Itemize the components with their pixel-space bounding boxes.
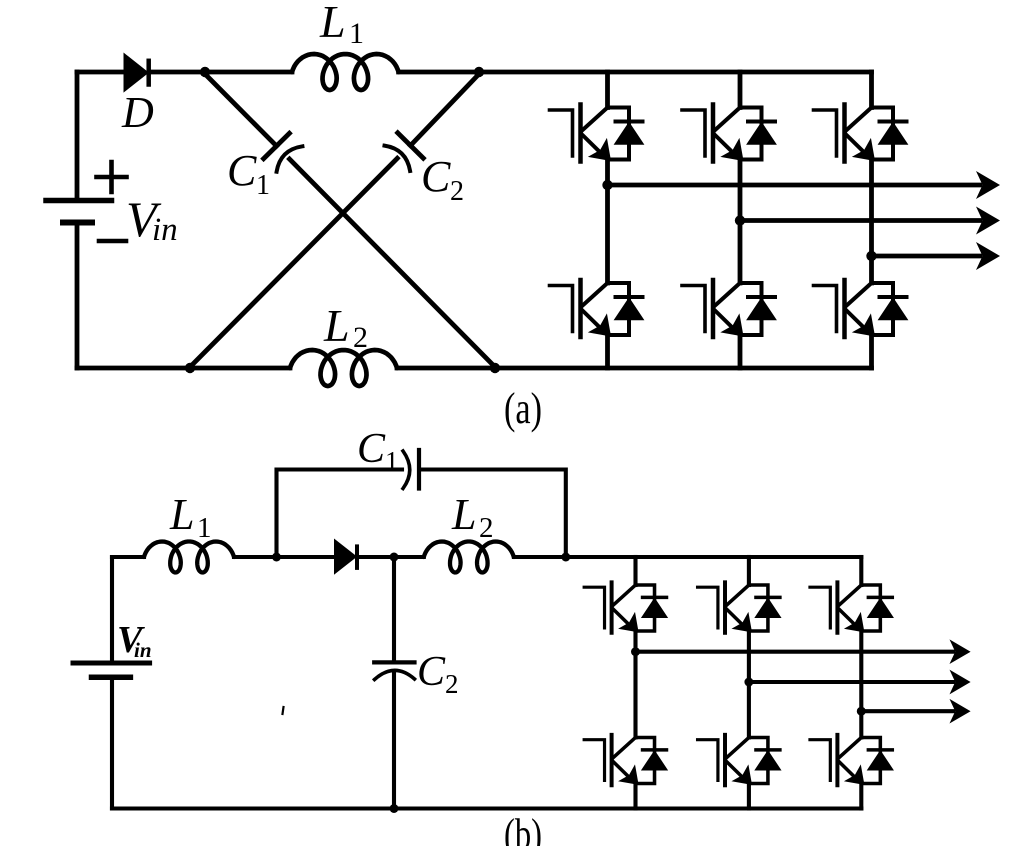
- svg-text:1: 1: [385, 446, 399, 476]
- svg-text:2: 2: [479, 512, 494, 544]
- capacitor C1 straight plate (a): [264, 133, 290, 158]
- node C1-bus junction (b): [561, 553, 570, 562]
- plus sign (a): [97, 162, 127, 192]
- wire: leg 1 middle (b): [633, 631, 637, 738]
- wire: X diagonal 1 upper segment (a): [205, 74, 277, 146]
- wire: phase C output line (a): [872, 254, 981, 259]
- svg-text:C: C: [357, 426, 386, 472]
- arrow phase C (a): [976, 242, 1000, 270]
- IGBT S5 upper leg3 (a): [814, 105, 908, 162]
- wire: diode to node (a): [151, 70, 206, 75]
- wire: L1 to diode (b): [234, 555, 335, 559]
- wire: bottom bus (a): [397, 366, 872, 371]
- wire: X diagonal 2 upper segment (a): [411, 74, 480, 146]
- diode D (a): [125, 55, 148, 91]
- arrow phase B (b): [949, 670, 970, 695]
- svg-text:L: L: [169, 490, 194, 539]
- node dot top-left of X (a): [200, 67, 210, 77]
- IGBT S2 lower leg3 (a): [814, 280, 908, 337]
- svg-text:C: C: [227, 146, 257, 195]
- svg-text:L: L: [451, 490, 476, 539]
- wire: bottom bus (b): [112, 806, 861, 810]
- arrow phase C (b): [949, 699, 970, 724]
- svg-text:C: C: [421, 152, 451, 201]
- svg-text:1: 1: [349, 17, 364, 50]
- node C2-bottom bus junction (b): [390, 804, 399, 813]
- wire: top left segment to diode (a): [77, 70, 125, 75]
- wire: X diagonal 1 lower segment (a): [290, 159, 496, 367]
- wire: leg 1 emitter lead (a): [605, 335, 610, 368]
- capacitor C2 curved plate (b): [375, 670, 415, 679]
- wire: leg 3 emitter lead (a): [869, 335, 874, 368]
- wire: phase A output line (a): [608, 183, 981, 188]
- wire: X diagonal 2 lower segment (a): [190, 158, 397, 367]
- node phase C (b): [857, 707, 866, 716]
- svg-text:C: C: [417, 649, 446, 695]
- IGBT S6 lower leg2 (b): [698, 735, 781, 785]
- wire: top bus (b): [514, 555, 861, 559]
- arrow phase A (a): [976, 171, 1000, 199]
- wire: inverter leg 2 collector lead (b): [747, 557, 751, 585]
- svg-text:(a): (a): [504, 384, 542, 433]
- wire: inverter leg 3 collector lead (b): [859, 557, 863, 585]
- wire: leg 2 middle (a): [738, 160, 743, 284]
- svg-text:2: 2: [445, 669, 459, 699]
- node phase A (a): [602, 180, 612, 190]
- wire: inverter leg 1 collector lead (b): [633, 557, 637, 585]
- node phase B (a): [735, 215, 745, 225]
- node phase B (b): [744, 678, 753, 687]
- inductor L1 (b): [144, 542, 234, 573]
- node phase A (b): [631, 647, 640, 656]
- IGBT S1 upper leg1 (b): [584, 582, 667, 632]
- inductor L2 (b): [424, 542, 514, 573]
- wire: leg 2 emitter lead (b): [747, 784, 751, 809]
- svg-text:in: in: [134, 638, 152, 662]
- wire: leg 2 emitter lead (a): [738, 335, 743, 368]
- wire: C1 branch left riser (b): [277, 470, 403, 558]
- svg-text:1: 1: [197, 512, 212, 544]
- svg-text:L: L: [323, 300, 350, 351]
- inductor L2 (a): [290, 350, 397, 386]
- svg-text:1: 1: [256, 170, 270, 201]
- capacitor C1 straight plate (b): [417, 450, 421, 489]
- wire: top left segment (b): [112, 555, 144, 559]
- capacitor C2 straight plate (b): [374, 660, 414, 664]
- svg-text:2: 2: [450, 176, 464, 207]
- wire: inverter leg 1 collector lead (a): [605, 72, 610, 108]
- wire: node to L1 (a): [205, 70, 292, 75]
- battery Vin (b) long plate: [73, 661, 150, 666]
- wire: leg 1 middle (a): [605, 160, 610, 284]
- IGBT S5 upper leg3 (b): [810, 582, 893, 632]
- node L1-C1 junction (b): [272, 553, 281, 562]
- node diode-C2 junction (b): [390, 553, 399, 562]
- IGBT S4 lower leg1 (a): [550, 280, 644, 337]
- wire: leg 3 middle (b): [859, 631, 863, 738]
- IGBT S4 lower leg1 (b): [584, 735, 667, 785]
- wire: battery top lead (b): [110, 557, 114, 661]
- svg-text:L: L: [319, 0, 346, 47]
- wire: inverter leg 3 collector lead (a): [869, 72, 874, 108]
- wire: C2 top lead (b): [392, 557, 396, 660]
- IGBT S3 upper leg2 (a): [682, 105, 776, 162]
- capacitor C2 curved plate (a): [385, 146, 411, 171]
- battery Vin (a) long plate: [46, 198, 112, 204]
- wire: diode to L2 (b): [358, 555, 423, 559]
- inductor L1 (a): [292, 54, 399, 90]
- IGBT S3 upper leg2 (b): [698, 582, 781, 632]
- svg-text:2: 2: [353, 321, 368, 354]
- arrow phase A (b): [949, 639, 970, 664]
- svg-text:(b): (b): [504, 810, 542, 846]
- battery Vin (a) short plate: [63, 220, 92, 226]
- diode (b): [335, 541, 356, 573]
- node phase C (a): [866, 251, 876, 261]
- wire: left rail bottom lead (a): [75, 223, 80, 369]
- wire: phase B output line (a): [740, 218, 980, 223]
- wire: C2 bottom lead (b): [392, 671, 396, 809]
- wire: leg 1 emitter lead (b): [633, 784, 637, 809]
- wire: phase C output line (b): [861, 709, 953, 713]
- svg-text:D: D: [121, 88, 154, 137]
- wire: phase A output line (b): [636, 650, 954, 654]
- wire: leg 2 middle (b): [747, 631, 751, 738]
- wire: inverter leg 2 collector lead (a): [738, 72, 743, 108]
- IGBT S2 lower leg3 (b): [810, 735, 893, 785]
- minus sign (a): [99, 239, 126, 244]
- wire: bottom left segment (a): [77, 366, 290, 371]
- node dot bottom-left of X (a): [185, 363, 195, 373]
- capacitor C1 curved plate (b): [403, 451, 410, 489]
- wire: left rail top lead (a): [75, 72, 80, 201]
- capacitor C2 straight plate (a): [398, 133, 424, 158]
- battery Vin (b) short plate: [92, 675, 131, 681]
- wire: top bus (a): [399, 70, 872, 75]
- wire: leg 3 middle (a): [869, 160, 874, 284]
- wire: phase B output line (b): [749, 680, 953, 684]
- svg-text:in: in: [152, 212, 178, 248]
- capacitor C1 curved plate (a): [277, 146, 303, 171]
- IGBT S6 lower leg2 (a): [682, 280, 776, 337]
- wire: C1 branch right riser (b): [421, 470, 566, 558]
- stray tick mark (b): [283, 707, 284, 714]
- node dot top-right of X (a): [474, 67, 484, 77]
- arrow phase B (a): [976, 207, 1000, 235]
- IGBT S1 upper leg1 (a): [550, 105, 644, 162]
- wire: battery bottom lead (b): [110, 680, 114, 809]
- node dot bottom-right of X (a): [490, 363, 500, 373]
- wire: leg 3 emitter lead (b): [859, 784, 863, 809]
